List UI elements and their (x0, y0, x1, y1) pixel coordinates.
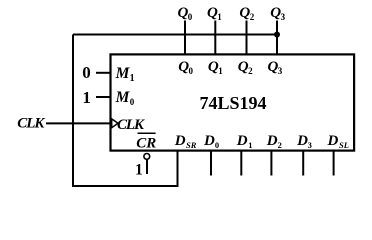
svg-text:2: 2 (278, 140, 282, 150)
svg-text:3: 3 (281, 12, 286, 22)
svg-text:CLK: CLK (117, 117, 145, 133)
svg-text:1: 1 (135, 162, 143, 179)
svg-text:0: 0 (130, 97, 135, 107)
svg-text:1: 1 (218, 66, 223, 76)
svg-text:M: M (115, 89, 131, 106)
svg-text:CR: CR (136, 136, 156, 152)
svg-text:D: D (327, 133, 339, 149)
svg-text:0: 0 (215, 140, 219, 150)
svg-text:D: D (266, 133, 278, 149)
svg-text:SL: SL (339, 140, 349, 150)
svg-text:D: D (236, 133, 248, 149)
svg-text:1: 1 (248, 140, 252, 150)
svg-text:1: 1 (82, 88, 91, 107)
svg-text:2: 2 (250, 12, 255, 22)
svg-text:0: 0 (189, 66, 194, 76)
svg-text:D: D (296, 133, 308, 149)
svg-text:1: 1 (217, 12, 222, 22)
svg-text:SR: SR (186, 140, 197, 150)
svg-text:M: M (115, 65, 131, 82)
svg-text:3: 3 (278, 66, 283, 76)
svg-text:D: D (174, 133, 186, 149)
svg-text:CLK: CLK (17, 116, 45, 132)
svg-text:0: 0 (188, 12, 193, 22)
svg-text:74LS194: 74LS194 (200, 93, 267, 113)
svg-text:0: 0 (82, 63, 91, 82)
svg-text:1: 1 (130, 73, 135, 84)
svg-text:3: 3 (308, 140, 312, 150)
svg-text:2: 2 (248, 66, 253, 76)
svg-text:D: D (203, 133, 215, 149)
